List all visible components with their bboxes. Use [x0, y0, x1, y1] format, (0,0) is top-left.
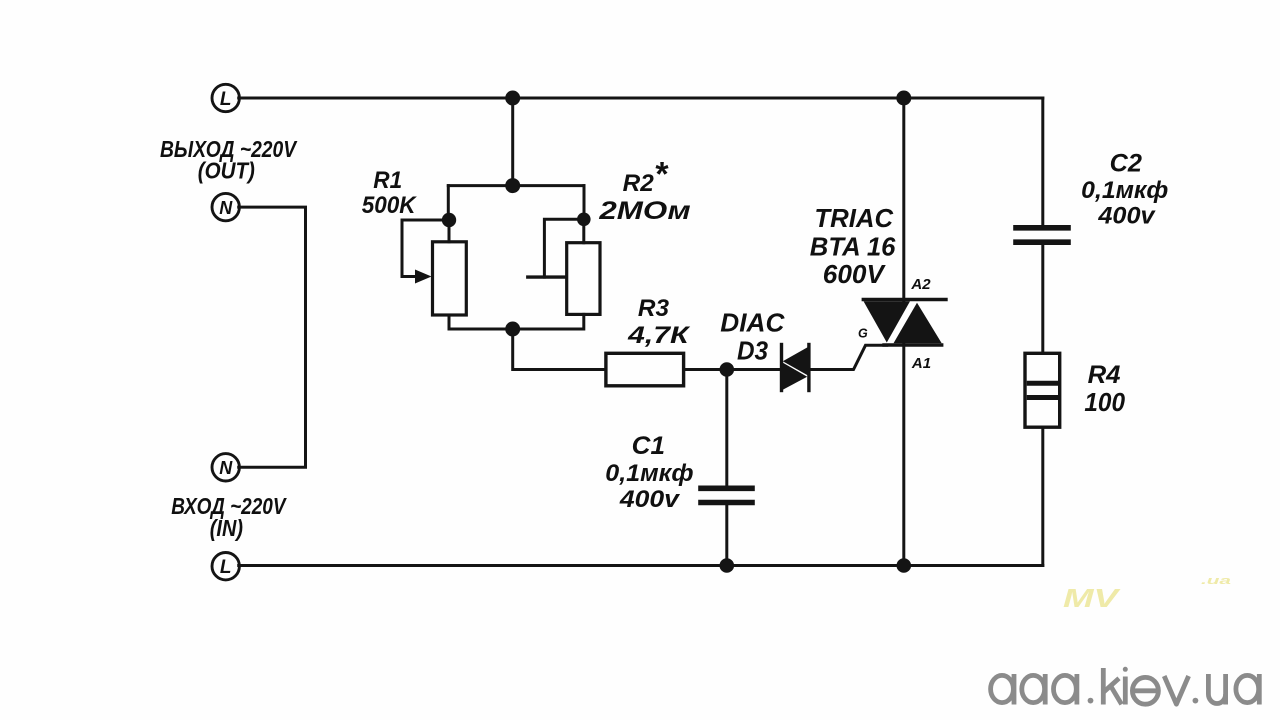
wire R1 bottom — [449, 315, 513, 329]
wire top rail L — [239, 97, 1043, 100]
watermark aaa.kiev.ua — [991, 667, 1260, 705]
svg-text:MV: MV — [1063, 583, 1122, 613]
wire R1 top drop — [447, 186, 451, 242]
trimmer R2 body — [567, 243, 600, 315]
svg-text:N: N — [219, 198, 233, 218]
junction triac top — [896, 91, 911, 106]
svg-text:*: * — [654, 156, 669, 194]
svg-text:500K: 500K — [362, 192, 417, 219]
svg-text:400v: 400v — [619, 486, 681, 513]
wire C2 branch top drop — [1041, 98, 1044, 225]
wire R3 to node C — [684, 368, 727, 371]
svg-text:DIAC: DIAC — [720, 308, 785, 338]
triac A2-A1 vertical wire — [902, 98, 905, 301]
svg-text:G: G — [858, 327, 868, 341]
wire R2 top drop — [582, 186, 585, 243]
svg-text:R1: R1 — [373, 167, 402, 194]
junction R2 wiper — [577, 213, 591, 227]
svg-text:400v: 400v — [1097, 203, 1156, 230]
wire N link — [239, 207, 306, 467]
junction node C — [720, 362, 735, 377]
diac D3 right bar — [807, 345, 810, 391]
wire diac to gate bend — [809, 345, 887, 369]
junction triac bottom — [897, 558, 912, 573]
junction R1 wiper — [442, 213, 456, 227]
svg-text:.ua: .ua — [1201, 575, 1231, 587]
svg-text:0,1мкф: 0,1мкф — [1081, 177, 1168, 204]
svg-text:4,7К: 4,7К — [627, 322, 691, 349]
svg-text:L: L — [220, 89, 232, 110]
triac Q1 left triangle — [864, 301, 911, 342]
wire R2 bottom — [513, 314, 584, 329]
svg-text:(IN): (IN) — [210, 515, 243, 541]
svg-text:A2: A2 — [910, 276, 931, 293]
resistor R3 body — [606, 353, 684, 386]
capacitor C1 plates — [701, 485, 752, 491]
junction top rail / divider — [505, 91, 520, 106]
wire C1 to bottom rail — [725, 505, 728, 565]
triac Q1 bottom bar A1/gate — [884, 343, 942, 346]
svg-text:100: 100 — [1084, 387, 1125, 417]
trimmer R2 preset bar — [528, 275, 565, 278]
svg-text:TRIAC: TRIAC — [814, 203, 894, 233]
svg-text:2МОм: 2МОм — [598, 197, 691, 225]
svg-text:R3: R3 — [638, 295, 670, 322]
wire bottom rail L — [239, 564, 1043, 567]
diac D3 lower triangle — [781, 362, 807, 391]
svg-text:A1: A1 — [911, 355, 931, 372]
resistor R4 body — [1025, 353, 1060, 427]
terminal L (bottom, input) — [212, 553, 239, 580]
potentiometer R1 body — [433, 242, 467, 315]
svg-text:N: N — [219, 458, 233, 478]
capacitor C2 plates — [1016, 225, 1068, 231]
diac D3 upper triangle — [783, 347, 809, 377]
junction node B — [505, 322, 520, 337]
svg-text:C1: C1 — [632, 432, 665, 460]
svg-text:0,1мкф: 0,1мкф — [605, 460, 693, 487]
resistor R4 inner bars — [1029, 381, 1056, 386]
wire C2 to R4 — [1041, 245, 1044, 353]
wire top rail drop to node A — [511, 98, 514, 186]
svg-text:R2: R2 — [623, 170, 655, 197]
potentiometer R1 wiper — [402, 220, 449, 277]
junction node A — [505, 178, 520, 193]
terminal L (top, output) — [212, 84, 239, 111]
svg-text:(OUT): (OUT) — [198, 158, 255, 184]
wire node B to R3 — [513, 329, 606, 370]
wire node A horizontal — [448, 184, 584, 187]
terminal N (output) — [212, 193, 239, 220]
svg-text:L: L — [220, 557, 232, 578]
svg-text:600V: 600V — [823, 259, 887, 289]
wire R4 to bottom rail — [1041, 427, 1044, 565]
svg-text:C2: C2 — [1110, 150, 1142, 178]
triac Q1 top bar A2 — [863, 298, 946, 301]
terminal N (input) — [212, 454, 239, 481]
svg-text:R4: R4 — [1088, 361, 1121, 389]
diac D3 left bar — [780, 345, 783, 391]
svg-text:BTA 16: BTA 16 — [810, 232, 896, 262]
svg-text:D3: D3 — [737, 336, 769, 366]
trimmer R2 preset wiper — [544, 219, 583, 277]
wire node C down to C1 — [725, 370, 728, 486]
triac Q1 right triangle — [894, 303, 942, 344]
junction C1 bottom — [720, 558, 735, 573]
wire node C to diac — [727, 368, 782, 371]
R1 wiper arrowhead — [415, 270, 432, 284]
